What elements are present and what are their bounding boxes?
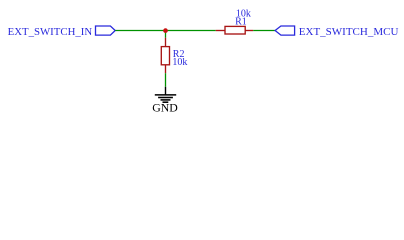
- port EXT_SWITCH_MCU: [275, 26, 295, 35]
- svg-text:GND: GND: [152, 101, 178, 115]
- svg-text:R1: R1: [235, 17, 247, 28]
- svg-text:EXT_SWITCH_IN: EXT_SWITCH_IN: [8, 26, 93, 38]
- svg-text:10k: 10k: [172, 57, 187, 68]
- port EXT_SWITCH_IN: [96, 26, 116, 35]
- svg-text:EXT_SWITCH_MCU: EXT_SWITCH_MCU: [299, 26, 399, 38]
- wire: junction down to R2 pin 1: [165, 31, 167, 38]
- resistor R1: [216, 26, 254, 34]
- resistor R2: [161, 38, 169, 73]
- wire: R2 pin 2 to ground: [165, 73, 167, 87]
- junction at node: [163, 28, 168, 33]
- wire: R1 right pin to right port: [253, 30, 275, 32]
- wire: left port to R1 left pin: [115, 30, 215, 32]
- ground GND symbol: [155, 87, 176, 102]
